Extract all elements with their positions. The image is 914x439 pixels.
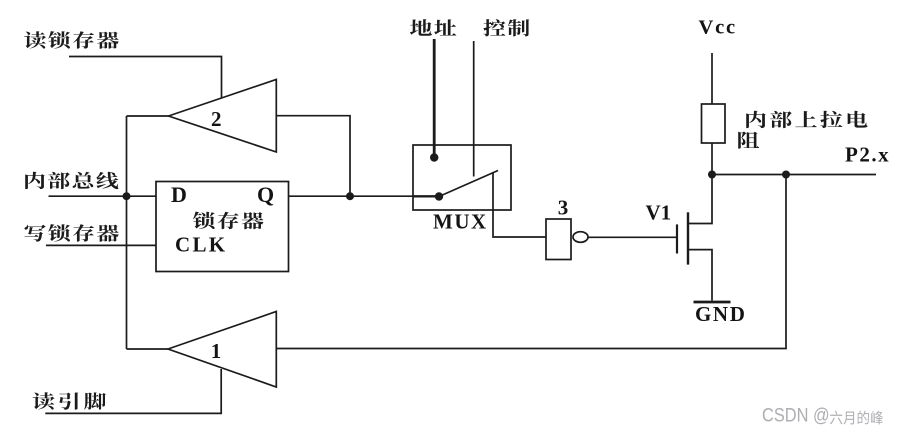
label 读锁存器 (read latch enable) <box>24 31 119 49</box>
wire: address line (thick) into MUX <box>433 39 436 155</box>
wire: control line into MUX <box>473 41 475 177</box>
node: Q / buffer-2 junction <box>346 192 354 200</box>
svg-text:P2.x: P2.x <box>845 143 890 167</box>
label 内部总线 (internal bus) <box>25 172 118 189</box>
wire: buffer 1 output to bus vertical <box>127 348 169 350</box>
wire: internal bus to latch D input <box>49 195 157 197</box>
svg-text:CLK: CLK <box>175 233 227 257</box>
wire: write-latch line to CLK <box>46 244 156 246</box>
node: drain/pull-up junction <box>708 171 716 179</box>
watermark CSDN @六月的峰 <box>762 404 883 426</box>
MUX box <box>413 145 511 210</box>
buffer 2 (tri-state, bus read of latch) <box>169 79 277 152</box>
svg-text:1: 1 <box>211 339 222 363</box>
wire: buffer 2 output to bus vertical <box>127 115 169 117</box>
wire: resistor to pin node <box>711 143 713 175</box>
transistor V1 drain lead <box>688 177 712 224</box>
svg-text:3: 3 <box>558 196 569 220</box>
node: bus junction <box>123 192 131 200</box>
svg-text:2: 2 <box>211 107 222 131</box>
svg-text:MUX: MUX <box>433 210 488 234</box>
wire: Vcc lead to resistor <box>711 53 713 104</box>
wire: read-pin line to buffer 1 enable <box>45 369 221 413</box>
svg-text:Vcc: Vcc <box>699 17 737 39</box>
wire: pin feedback down and left to buffer 1 input <box>276 175 786 349</box>
node: pin feedback junction <box>782 171 790 179</box>
wire: buffer 2 input from Q line <box>276 116 350 197</box>
wire: Q output to MUX switch pole <box>289 195 414 197</box>
MUX switch arm <box>439 171 498 197</box>
label 控制 (control) <box>483 19 529 36</box>
wire: read-latch line to buffer 2 enable <box>69 57 222 99</box>
wire: pin node line out to P2.x <box>712 174 876 176</box>
transistor V1 channel bar <box>687 212 689 264</box>
wire: gate 3 output to V1 gate <box>588 236 676 238</box>
ground bar <box>694 301 731 304</box>
label 读引脚 (read pin) <box>33 392 106 409</box>
label 地址 (address) <box>410 19 456 36</box>
svg-text:Q: Q <box>257 182 274 207</box>
svg-text:GND: GND <box>695 302 746 326</box>
svg-text:V1: V1 <box>646 201 672 225</box>
transistor V1 gate bar <box>676 224 678 253</box>
latch U1 box (D latch 锁存器) <box>156 182 289 272</box>
transistor V1 source lead <box>688 250 712 301</box>
resistor R (internal pull-up) <box>702 104 726 143</box>
wire: MUX output down then right to gate 3 <box>493 172 546 237</box>
label 内部上拉电阻 (internal pull-up resistor) <box>738 111 867 149</box>
label 写锁存器 (write latch) <box>24 224 118 242</box>
wire: vertical bus link (buffer2 out / bus node / buffer1 out) <box>126 116 128 349</box>
label 锁存器 (latch) <box>193 212 264 230</box>
svg-text:CSDN @: CSDN @ <box>762 404 830 426</box>
buffer 1 (read pin) <box>168 312 276 388</box>
svg-text:D: D <box>171 182 187 207</box>
node: address terminal dot <box>430 153 438 161</box>
node: MUX switch pole dot <box>435 192 443 200</box>
gate 3 (inverting pin driver) <box>546 196 588 260</box>
